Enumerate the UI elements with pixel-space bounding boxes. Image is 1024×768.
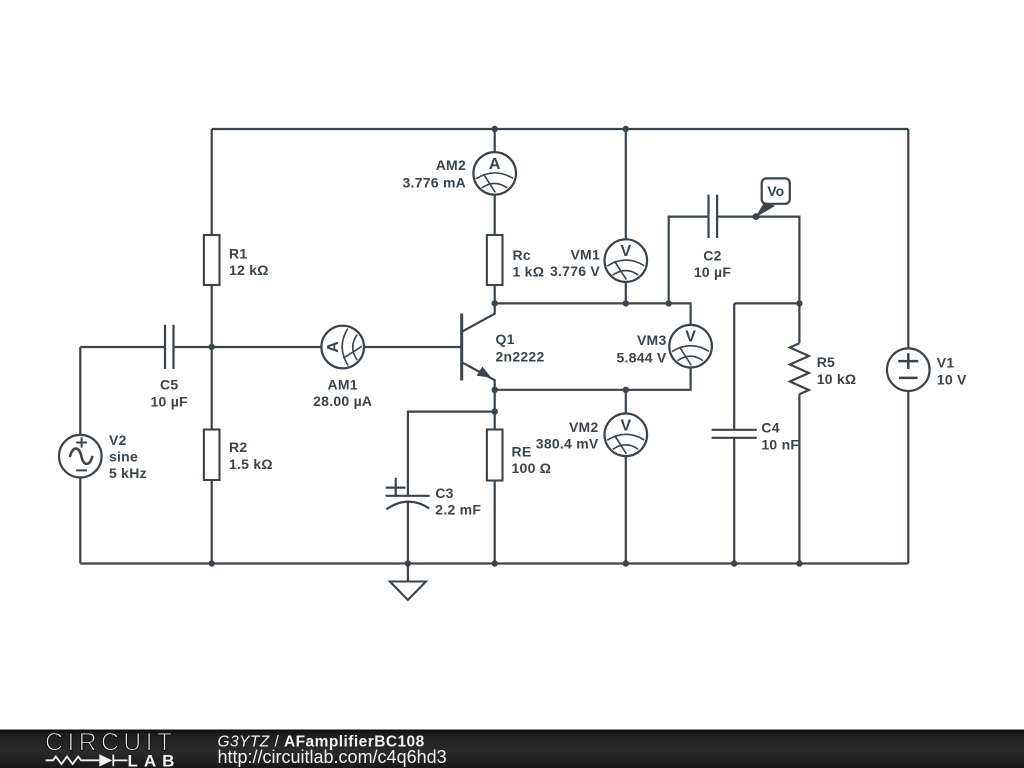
- svg-text:V1: V1: [937, 354, 955, 370]
- svg-text:C3: C3: [435, 485, 453, 501]
- svg-text:10 µF: 10 µF: [151, 393, 189, 409]
- svg-text:3.776 mA: 3.776 mA: [403, 174, 466, 190]
- svg-text:5 kHz: 5 kHz: [109, 465, 147, 481]
- svg-text:100 Ω: 100 Ω: [512, 460, 552, 476]
- svg-text:28.00 µA: 28.00 µA: [313, 393, 372, 409]
- svg-text:2n2222: 2n2222: [496, 348, 545, 364]
- svg-text:A: A: [325, 341, 342, 353]
- svg-text:380.4 mV: 380.4 mV: [536, 435, 599, 451]
- svg-text:1 kΩ: 1 kΩ: [513, 264, 545, 280]
- svg-text:RE: RE: [512, 443, 532, 459]
- svg-text:A: A: [489, 156, 501, 173]
- svg-text:12 kΩ: 12 kΩ: [229, 262, 269, 278]
- svg-text:R2: R2: [229, 439, 247, 455]
- svg-text:LAB: LAB: [128, 751, 181, 768]
- svg-text:1.5 kΩ: 1.5 kΩ: [229, 456, 273, 472]
- svg-text:Rc: Rc: [513, 247, 531, 263]
- svg-text:V: V: [620, 243, 631, 260]
- svg-text:C2: C2: [703, 247, 721, 263]
- svg-text:3.776 V: 3.776 V: [550, 263, 600, 279]
- svg-text:C4: C4: [761, 420, 779, 436]
- svg-text:http://circuitlab.com/c4q6hd3: http://circuitlab.com/c4q6hd3: [218, 747, 447, 767]
- svg-text:AM2: AM2: [436, 157, 466, 173]
- svg-text:R5: R5: [817, 354, 835, 370]
- svg-text:sine: sine: [109, 449, 138, 465]
- svg-text:Q1: Q1: [496, 331, 515, 347]
- svg-text:V: V: [620, 417, 631, 434]
- svg-text:10 µF: 10 µF: [694, 264, 732, 280]
- svg-text:Vo: Vo: [767, 183, 784, 199]
- svg-text:10 kΩ: 10 kΩ: [817, 371, 857, 387]
- svg-text:5.844 V: 5.844 V: [616, 349, 666, 365]
- svg-text:10 nF: 10 nF: [761, 437, 799, 453]
- svg-text:AM1: AM1: [328, 377, 358, 393]
- svg-text:VM3: VM3: [637, 332, 667, 348]
- svg-text:V: V: [685, 329, 696, 346]
- svg-text:C5: C5: [160, 377, 178, 393]
- svg-text:VM2: VM2: [569, 419, 599, 435]
- svg-text:V2: V2: [109, 432, 127, 448]
- svg-text:2.2 mF: 2.2 mF: [435, 501, 481, 517]
- svg-text:R1: R1: [229, 246, 247, 262]
- svg-text:VM1: VM1: [570, 246, 600, 262]
- svg-text:10 V: 10 V: [937, 371, 967, 387]
